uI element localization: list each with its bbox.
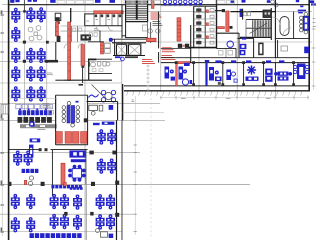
dimension line below right wing bbox=[160, 96, 309, 100]
annotation small mid bbox=[43, 104, 54, 115]
blue bar under room bbox=[102, 122, 115, 125]
bottom small marks bbox=[96, 229, 114, 239]
desk pair B6 bbox=[26, 217, 35, 232]
wall x275 bbox=[274, 0, 276, 58]
room block corridor east bbox=[216, 48, 236, 57]
tiny labels under offices bbox=[181, 98, 271, 100]
room walls mid-core bbox=[61, 26, 105, 42]
wall x86 lower bbox=[85, 150, 87, 240]
stair east treads bbox=[240, 8, 272, 40]
blue desk A bbox=[240, 38, 247, 50]
dimension line right edge bbox=[312, 4, 316, 90]
wall chunk below bbox=[88, 59, 96, 61]
changing rooms row bbox=[61, 14, 123, 32]
desk cluster quad Q4 bbox=[26, 86, 45, 101]
wall left-wing east lower (double) bbox=[117, 120, 123, 240]
office room walls bbox=[87, 102, 118, 121]
desk cluster pair L4 bbox=[11, 66, 20, 81]
red wall top band bbox=[94, 11, 123, 14]
line y98 left bbox=[9, 97, 57, 99]
blue dash row bbox=[70, 187, 83, 190]
desk pair B2 bbox=[26, 194, 35, 209]
small desk left bbox=[29, 122, 34, 127]
wall right-wing south (double with hatch) bbox=[124, 86, 310, 96]
red annotation D bbox=[162, 56, 176, 60]
room small top-left of core bbox=[55, 13, 61, 20]
meeting room walls bbox=[56, 95, 88, 145]
diagonal wall lounge bbox=[92, 85, 107, 100]
white boxes pair bbox=[105, 43, 111, 53]
wall core south bbox=[55, 79, 64, 81]
dimension ticks left bbox=[1, 10, 4, 236]
blue label meeting bbox=[298, 12, 303, 13]
desk cluster quad Q3 bbox=[26, 66, 45, 81]
red strip top x152 bbox=[151, 0, 154, 9]
dim text right edge bbox=[313, 19, 317, 27]
elevator shafts bbox=[112, 39, 146, 58]
junction squares bbox=[8, 41, 119, 217]
blue shelf row bbox=[30, 138, 41, 142]
desk pair B5 bbox=[11, 217, 20, 232]
dark wall chunk east2 bbox=[81, 66, 84, 83]
red tick mid-bottom bbox=[64, 182, 67, 186]
top chairs pair bbox=[267, 0, 278, 7]
red annotation C bbox=[162, 48, 175, 52]
dashed section line bbox=[150, 98, 152, 238]
red wall corridor east bbox=[68, 22, 71, 81]
desk pair B1 bbox=[11, 194, 20, 209]
cropped desks top right bbox=[231, 0, 317, 6]
copier dark box bbox=[263, 10, 271, 18]
blue label meeting2 bbox=[300, 6, 303, 8]
tiny text marks bbox=[38, 128, 46, 130]
red box by elevators bbox=[147, 38, 157, 41]
dimension line corner bbox=[123, 112, 164, 114]
desk cluster pair L2 bbox=[11, 27, 20, 42]
office desk 6 bbox=[274, 60, 292, 80]
red locker mini strip bbox=[100, 43, 103, 54]
wall right facade bbox=[308, 0, 310, 92]
kitchen counters bbox=[18, 117, 58, 128]
desk pair B4 bbox=[73, 195, 82, 210]
blue bar M bbox=[22, 169, 39, 173]
blue circle table bbox=[227, 41, 233, 47]
blue partition bbox=[205, 63, 207, 86]
office desk 5 bbox=[265, 60, 272, 81]
corridor wall north bbox=[161, 57, 309, 59]
red locker strip bbox=[177, 18, 181, 41]
text open area bbox=[47, 73, 53, 75]
wall x293 bbox=[275, 12, 309, 39]
black cabinets pair bbox=[178, 44, 189, 48]
red wall office1 west bbox=[176, 64, 178, 86]
blue bar in room bbox=[71, 159, 86, 162]
wall top facade bbox=[8, 4, 310, 6]
technik rooms bbox=[122, 22, 151, 43]
black annotation B bbox=[153, 22, 163, 26]
office partitions bbox=[161, 63, 309, 86]
wall corridor upper bbox=[70, 8, 72, 22]
desk cluster quad Q1 bbox=[26, 7, 45, 22]
dimension line vertical bbox=[132, 96, 137, 235]
wall core east thick bbox=[122, 5, 148, 38]
door arcs core bbox=[64, 17, 291, 49]
room walls R bbox=[52, 150, 86, 196]
office desk 7 bbox=[294, 64, 309, 80]
corridor line top bbox=[161, 47, 191, 49]
cabinet below bbox=[56, 21, 60, 24]
blue square monitor bbox=[109, 105, 114, 110]
desk quad M1 bbox=[13, 151, 32, 166]
red strip in room bbox=[61, 163, 65, 184]
wall left facade bbox=[8, 0, 10, 240]
blue circle D bbox=[109, 38, 113, 42]
wall core east boundary bbox=[158, 12, 160, 63]
wall y150 bbox=[9, 148, 88, 151]
desk quad W4 bbox=[96, 214, 115, 229]
desk quad W1 bbox=[97, 129, 116, 144]
line x56 kitchen bbox=[56, 98, 58, 128]
blue circle marker bbox=[121, 57, 125, 61]
office desk 1 bbox=[179, 63, 193, 85]
bottom blue bar row bbox=[30, 233, 82, 238]
office desk 2 bbox=[209, 60, 222, 84]
long table blue bbox=[62, 101, 80, 127]
desk pair B8 bbox=[73, 215, 82, 230]
desk cluster quad Q2 bbox=[26, 48, 45, 63]
sofa squiggle bbox=[89, 95, 99, 98]
training chairs row bbox=[161, 0, 216, 6]
dark shaft rect bbox=[258, 43, 263, 56]
wall x24 top bbox=[23, 0, 26, 13]
red wall corridor west bbox=[55, 22, 58, 36]
exterior escape stair bbox=[1, 105, 8, 115]
red tick bottomleft bbox=[24, 180, 27, 184]
partition end squares bbox=[175, 61, 295, 86]
blue door mark corridor bbox=[205, 60, 209, 62]
red wall top right-wing bbox=[218, 27, 225, 29]
red wall strip right bbox=[226, 11, 229, 32]
desk quad B3 bbox=[50, 194, 69, 209]
oval table room bbox=[280, 17, 289, 36]
wall stub dark bbox=[45, 60, 59, 63]
office desk 3 bbox=[226, 60, 237, 82]
cropped desks top edge bbox=[10, 0, 115, 3]
desk row blue bbox=[18, 108, 52, 115]
door squares corridor bbox=[230, 26, 233, 29]
blue desk C right bbox=[304, 47, 309, 54]
corridor wall west of block bbox=[190, 25, 192, 63]
stair north bbox=[126, 0, 148, 22]
cell texts bbox=[86, 20, 110, 31]
desk quad W3 bbox=[96, 194, 115, 209]
office room desk bbox=[89, 105, 103, 115]
lounge chairs group bbox=[28, 26, 42, 41]
red armchairs bbox=[56, 132, 87, 144]
desk row gray bbox=[16, 104, 53, 108]
blue cabinet strip bbox=[29, 145, 33, 158]
wc shower block bbox=[188, 0, 217, 48]
small gray desks stair bbox=[243, 11, 250, 16]
blue bar long bbox=[51, 185, 81, 188]
wall left-wing east upper bbox=[122, 84, 124, 121]
office desk 4 spider bbox=[246, 60, 259, 81]
top band desk outlines bbox=[57, 0, 234, 3]
desk quad B7 bbox=[50, 214, 69, 229]
blue desk B bbox=[240, 50, 246, 55]
dark kitchenette box bbox=[81, 34, 92, 40]
red wall office1 bbox=[177, 62, 190, 64]
round table cluster bbox=[101, 90, 115, 102]
junction squares bottom bbox=[64, 212, 93, 216]
blue bar 2 under room bbox=[93, 123, 100, 125]
desk cluster pair L5 bbox=[11, 86, 20, 101]
circled numbers bbox=[148, 29, 160, 33]
wall pieces NE bbox=[215, 9, 239, 58]
stool circles M bbox=[28, 176, 33, 186]
desk pair in room bbox=[69, 150, 85, 157]
meeting table 8p bbox=[299, 12, 308, 34]
red wall east2 bbox=[81, 45, 84, 66]
walls rooms below stair east bbox=[237, 38, 277, 57]
wc block bbox=[64, 59, 112, 86]
desk cluster pair L3 bbox=[11, 48, 20, 63]
dimension text column bbox=[147, 64, 150, 95]
office desk 0 bbox=[165, 67, 176, 81]
desk quad W2 bbox=[97, 159, 116, 174]
red annotation A bbox=[151, 13, 162, 19]
blue elevator box bbox=[240, 9, 243, 17]
dark wall chunk west bbox=[56, 36, 61, 61]
square table 8 chairs bbox=[68, 165, 86, 182]
blue wall cap top bbox=[298, 10, 306, 12]
red annotation E bbox=[142, 60, 155, 64]
stair east walls bbox=[231, 9, 276, 20]
desk cluster pair L1 bbox=[11, 8, 20, 23]
gray desk room right bbox=[281, 46, 288, 51]
